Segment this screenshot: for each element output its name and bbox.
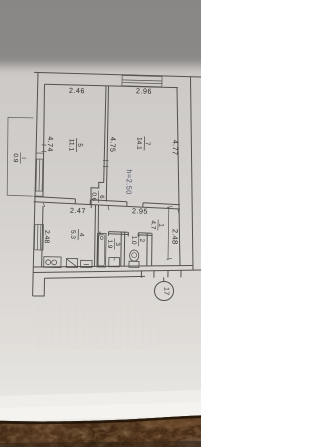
apartment number circle 17 — [155, 282, 174, 301]
svg-text:2.46: 2.46 — [69, 86, 85, 95]
kitchen fixtures — [44, 257, 92, 268]
mid wall upper line right of room5 door — [90, 199, 106, 202]
toilet east wall east line — [151, 233, 153, 266]
toilet east wall west line — [146, 233, 148, 266]
bath toilet divider west — [120, 232, 123, 266]
room 5 interior left line — [43, 84, 45, 197]
balcony label I / 0.9 — [12, 152, 27, 163]
wall between rooms 5 and 7 (west line) — [104, 86, 106, 183]
kitchen table — [81, 260, 93, 267]
bath door jambs — [99, 232, 101, 236]
bath toilet divider east — [123, 232, 126, 266]
stove — [44, 257, 61, 268]
left outer wall — [33, 73, 38, 296]
door jamb room5 — [74, 199, 76, 204]
svg-text:1.9: 1.9 — [106, 239, 113, 248]
interior top line rooms 5 and 7 — [45, 84, 179, 87]
right inner wall — [177, 88, 180, 267]
svg-text:4: 4 — [78, 233, 85, 237]
washbasin — [109, 258, 120, 267]
text labels — [43, 86, 180, 245]
svg-text:2.96: 2.96 — [136, 86, 152, 95]
balcony — [7, 117, 33, 196]
bright paper strip above table edge — [0, 390, 201, 421]
bath-toilet top wall lower line segments — [99, 232, 100, 234]
bathtub — [97, 234, 106, 268]
toilet door jambs — [127, 232, 129, 236]
room 7 : 14.1 — [135, 136, 151, 150]
svg-text:0.6: 0.6 — [90, 192, 97, 201]
svg-text:2.48: 2.48 — [43, 230, 50, 244]
floor plan linework — [33, 72, 201, 300]
bottom-left protrusion — [33, 278, 45, 296]
svg-text:h=2.50: h=2.50 — [124, 169, 134, 194]
kitchen 4 : 5.3 — [69, 229, 85, 240]
hall 1 : 4.7 — [149, 219, 164, 230]
top window room 7 — [122, 75, 162, 86]
kitchen-bath wall east line — [97, 205, 100, 266]
wood table at bottom — [0, 412, 209, 447]
room 5 : 11.1 — [67, 138, 83, 152]
mid wall upper line room7 segment — [106, 201, 127, 202]
svg-text:2: 2 — [138, 238, 145, 242]
room number fraction labels (rotated blocks) — [12, 136, 172, 295]
bottom wall middle line — [33, 270, 201, 273]
mid wall upper line left segment (room 5 south) — [34, 197, 76, 199]
closet 6 step lines — [91, 182, 104, 208]
svg-text:2.47: 2.47 — [70, 206, 86, 215]
top outer wall — [34, 72, 201, 77]
door jamb room5 b — [89, 200, 91, 205]
bottom wall interior line — [33, 266, 193, 268]
kitchen window on left wall — [34, 223, 44, 225]
svg-text:4.77: 4.77 — [171, 140, 180, 156]
kitchen interior left line — [42, 206, 43, 267]
bath-toilet top wall upper line segments with door gaps — [109, 231, 129, 234]
svg-text:14.1: 14.1 — [135, 137, 142, 150]
svg-text:4.74: 4.74 — [46, 136, 55, 152]
svg-text:17: 17 — [162, 287, 171, 295]
door jamb room7 — [126, 202, 128, 207]
svg-text:1.0: 1.0 — [130, 236, 137, 246]
paper background — [0, 0, 201, 447]
svg-text:2.48: 2.48 — [170, 229, 179, 245]
left wall window room5/balcony — [36, 158, 43, 160]
toilet fixtures — [129, 250, 139, 267]
svg-text:11.1: 11.1 — [67, 139, 74, 152]
closet 6 : 0.6 — [90, 191, 105, 203]
windows — [34, 75, 163, 250]
toilet 2 : 1.0 — [130, 234, 145, 246]
svg-text:5.3: 5.3 — [69, 230, 76, 240]
2.48 dimension line right — [167, 207, 170, 259]
bath 3 : 1.9 — [106, 238, 121, 249]
svg-text:2.95: 2.95 — [132, 206, 148, 215]
faint bleed-through table stripes — [36, 302, 160, 348]
svg-text:0.9: 0.9 — [12, 153, 19, 163]
leader to apartment circle — [163, 278, 166, 282]
wall between rooms 5 and 7 (east line) — [106, 86, 108, 202]
kitchen-bath wall west line — [95, 205, 96, 266]
right outer wall — [191, 77, 194, 270]
mid wall lower line — [34, 202, 180, 209]
svg-text:5: 5 — [76, 143, 83, 147]
sink — [66, 259, 77, 268]
dimension ticks — [42, 145, 179, 260]
entry door stubs — [140, 271, 142, 278]
mid wall upper line right segment — [143, 203, 180, 205]
bottom wall outer line — [44, 276, 145, 278]
svg-text:7: 7 — [144, 142, 151, 146]
svg-text:1: 1 — [157, 223, 164, 227]
bathroom fixtures — [97, 234, 120, 268]
svg-text:4.75: 4.75 — [108, 137, 117, 153]
door jamb room7 b — [142, 203, 144, 208]
svg-text:4.7: 4.7 — [149, 220, 156, 230]
